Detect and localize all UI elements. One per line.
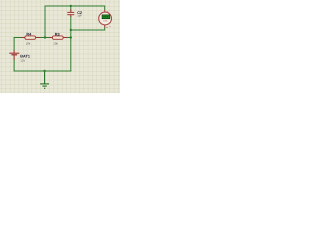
ground — [40, 71, 49, 88]
node riser-middle junction — [44, 36, 46, 38]
grid — [0, 0, 120, 93]
capacitor C2 — [67, 10, 74, 17]
wire battery bottom lead — [13, 60, 15, 72]
node top-cap junction — [70, 5, 72, 7]
svg-text:+: + — [107, 10, 109, 14]
svg-text:10k: 10k — [26, 42, 31, 46]
wire battery top lead — [13, 38, 15, 51]
svg-text:1uF: 1uF — [77, 14, 82, 18]
background — [0, 0, 120, 93]
node ground junction — [43, 70, 45, 72]
meter top pin — [104, 10, 106, 13]
svg-text:R3: R3 — [55, 33, 60, 37]
svg-text:10k: 10k — [53, 42, 58, 46]
wire left vertical (node A riser) — [44, 6, 46, 38]
wire middle horizontal — [14, 37, 71, 39]
wire bottom horizontal — [14, 70, 71, 72]
wire meter bottom return — [71, 27, 105, 30]
battery BAT1 — [9, 50, 19, 60]
voltmeter U1 — [99, 12, 112, 25]
wire meter top lead — [104, 6, 106, 10]
wire right vertical branch — [70, 6, 72, 71]
node cap-return junction — [70, 29, 72, 31]
meter bottom pin — [104, 25, 106, 27]
node cap-middle junction — [70, 36, 72, 38]
svg-text:Volts: Volts — [103, 20, 108, 23]
resistor R3 — [49, 36, 67, 39]
svg-text:12V: 12V — [20, 59, 25, 63]
label - (meter negative pin marks) — [106, 26, 111, 27]
resistor R4 — [22, 36, 40, 39]
wire top horizontal — [45, 5, 105, 7]
